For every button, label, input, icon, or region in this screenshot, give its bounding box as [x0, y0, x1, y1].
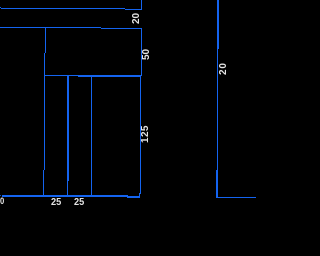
wire vertical G seg1 (x=45.4, y 27.5-53): [45, 28, 46, 53]
dimension text 0 (left edge, clipped): [0, 196, 4, 206]
dimension text 25 (first): [51, 198, 61, 208]
wire vertical D seg3 (x=217, y 169.6-197.2): [216, 170, 217, 198]
wire vertical H seg2 (x=67.2, y 181-196): [67, 181, 68, 196]
wire vertical I seg1 (x=91.5, y 75.8-183): [91, 75, 92, 183]
wire vertical C upper (x=141.5, y 28-76): [141, 28, 142, 76]
wire vertical H seg1 (x=68, y 75.2-181): [67, 75, 68, 181]
wire top line A right part (y=9.2): [125, 9, 142, 10]
wire mid horizontal left (y=75.2, x 45-78): [45, 75, 78, 76]
wire bottom right horizontal E (y=197.2): [216, 197, 256, 198]
wire bottom dimension line F left (y=196): [2, 195, 128, 196]
wire mid horizontal right (y=75.9, x 78-141): [78, 75, 141, 76]
wire bottom line F right part (y=197): [127, 196, 141, 197]
wire vertical I seg2 (x=91.2, y 183-196): [91, 183, 92, 196]
wire vertical G seg3 (x=43.6, y 170-196): [43, 170, 44, 196]
wire vertical G seg2 (x=44.3, y 53-170): [44, 53, 45, 170]
wire tick at left end of F: [0, 195, 2, 196]
wire tick at left end of A: [0, 7, 2, 8]
wire vertical D seg2 (x=217.5, y 49-169.6): [217, 49, 218, 170]
wire vertical C lower (x=140.5, y 76-193.4): [140, 75, 141, 194]
dimension text 20 (right, rotated): [219, 62, 229, 75]
wire vertical C top (x=141, y 0-9): [141, 0, 142, 10]
dimension text 50 (rotated): [142, 48, 152, 59]
wire vertical D seg1 (x=218, y 0-49): [217, 0, 218, 49]
dimension text 125 (rotated): [141, 125, 151, 143]
wire horizontal line B left (y=27.3): [0, 27, 101, 28]
wire top horizontal line A: [1, 8, 124, 9]
dimension text 20 (top, rotated): [132, 13, 142, 24]
wire horizontal line B right (y=28.3): [101, 28, 142, 29]
wire vertical C lower jog (x=139.9, y 193.4-197): [139, 193, 140, 197]
dimension text 25 (second): [74, 198, 84, 208]
